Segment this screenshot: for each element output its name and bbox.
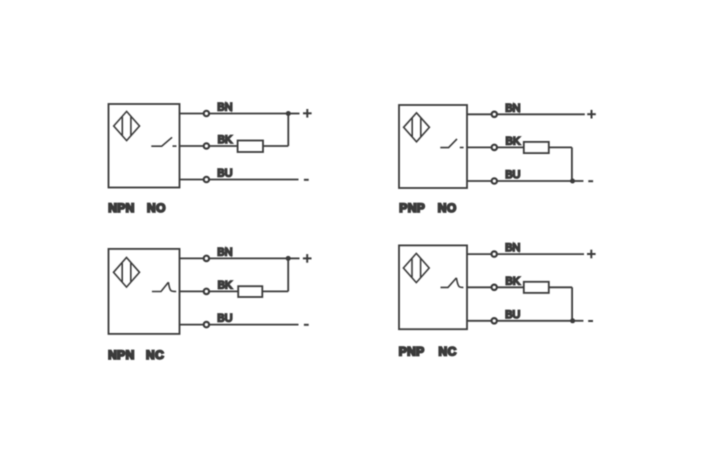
svg-text:PNP: PNP: [399, 345, 425, 359]
svg-text:NO: NO: [438, 201, 457, 215]
svg-text:BN: BN: [217, 102, 232, 114]
wire BN (terminal to plus): [498, 253, 584, 255]
NO switch contact: [440, 139, 463, 148]
NC switch contact: [441, 278, 464, 288]
plus sign: [587, 110, 596, 119]
wire (corner down to junction): [571, 147, 573, 181]
wire BU (terminal to junction): [498, 180, 573, 182]
terminal BK: [204, 143, 209, 148]
terminal BU: [204, 322, 209, 327]
svg-text:BU: BU: [505, 169, 520, 181]
proximity sensor symbol (diamond): [403, 253, 429, 282]
wire BK (resistor to corner): [549, 146, 572, 148]
svg-text:BK: BK: [505, 275, 520, 287]
resistor (load): [524, 142, 549, 153]
wire BU (box to terminal): [180, 179, 204, 181]
svg-text:BN: BN: [505, 242, 520, 254]
svg-text:BU: BU: [217, 313, 232, 325]
terminal BK: [492, 145, 497, 150]
junction dot: [286, 111, 291, 116]
terminal BK: [204, 289, 209, 294]
wire (corner up to junction): [287, 114, 289, 147]
wire BU (terminal to junction): [498, 320, 573, 322]
wire BK (terminal to resistor): [498, 286, 524, 288]
terminal BK: [492, 285, 497, 290]
wire BN (box to terminal): [180, 113, 204, 115]
wire BU (terminal to right): [210, 179, 299, 181]
wire BN (terminal to junction): [210, 113, 288, 115]
terminal BU: [204, 177, 209, 182]
plus sign: [587, 250, 596, 259]
svg-text:NC: NC: [439, 345, 457, 359]
svg-text:BK: BK: [218, 280, 233, 292]
resistor (load): [524, 282, 549, 293]
proximity sensor symbol (diamond): [114, 258, 140, 288]
svg-text:BU: BU: [217, 168, 232, 180]
wire to minus: [573, 320, 584, 322]
wire BK (box to terminal): [180, 290, 204, 292]
wire BK (box to terminal): [467, 286, 491, 288]
NO switch contact: [151, 137, 176, 146]
sensor box (NPN NO): [109, 104, 180, 188]
wire BK (box to terminal): [180, 145, 204, 147]
svg-text:BK: BK: [506, 136, 521, 148]
wire BK (terminal to resistor): [498, 146, 524, 148]
wire BK (resistor to corner): [262, 290, 288, 292]
minus sign: [304, 324, 309, 326]
terminal BU: [492, 178, 497, 183]
NC switch contact: [152, 282, 176, 291]
junction dot: [286, 256, 291, 261]
plus sign: [303, 254, 312, 263]
wire BK (box to terminal): [467, 146, 491, 148]
terminal BN: [492, 112, 497, 117]
wire BK (terminal to resistor): [210, 290, 238, 292]
sensor box (PNP NC): [399, 245, 467, 329]
svg-text:NC: NC: [146, 348, 164, 362]
svg-text:NPN: NPN: [108, 201, 135, 215]
junction dot: [570, 318, 575, 323]
wire BU (terminal to right): [210, 324, 299, 326]
proximity sensor symbol (diamond): [404, 113, 430, 142]
minus sign: [588, 320, 593, 322]
wire BK (terminal to resistor): [210, 145, 238, 147]
svg-text:NPN: NPN: [108, 348, 135, 362]
caption PNP NO: [399, 201, 456, 215]
wire (corner down to junction): [571, 287, 573, 321]
wire to plus: [288, 257, 299, 259]
wire BU (box to terminal): [467, 320, 491, 322]
wire (corner up to junction): [287, 258, 289, 291]
svg-text:NO: NO: [147, 201, 166, 215]
wire BN (box to terminal): [467, 113, 491, 115]
caption PNP NC: [399, 345, 457, 359]
svg-text:BN: BN: [217, 247, 232, 259]
wire BN (box to terminal): [180, 257, 204, 259]
svg-text:BN: BN: [505, 102, 520, 114]
svg-text:BU: BU: [505, 309, 520, 321]
sensor box (NPN NC): [109, 249, 180, 334]
wire BN (terminal to junction): [210, 257, 288, 259]
minus sign: [304, 179, 309, 181]
wire BU (box to terminal): [180, 324, 204, 326]
wire BN (terminal to plus): [498, 113, 585, 115]
proximity sensor symbol (diamond): [114, 111, 140, 140]
resistor (load): [238, 141, 263, 153]
wire BU (box to terminal): [467, 180, 491, 182]
wire BK (resistor to corner): [549, 286, 572, 288]
sensor box (PNP NO): [399, 105, 467, 188]
caption NPN NC: [108, 348, 164, 362]
terminal BN: [492, 251, 497, 256]
minus sign: [588, 180, 593, 182]
svg-text:PNP: PNP: [399, 201, 425, 215]
svg-text:BK: BK: [218, 134, 233, 146]
wire to minus: [573, 180, 584, 182]
resistor (load): [238, 286, 262, 297]
terminal BN: [204, 111, 209, 116]
plus sign: [303, 109, 312, 118]
caption NPN NO: [108, 201, 166, 215]
terminal BN: [204, 256, 209, 261]
junction dot: [570, 179, 575, 184]
wire BN (box to terminal): [467, 253, 491, 255]
wire to plus: [288, 113, 299, 115]
wire BK (resistor to corner): [263, 145, 288, 147]
terminal BU: [492, 318, 497, 323]
